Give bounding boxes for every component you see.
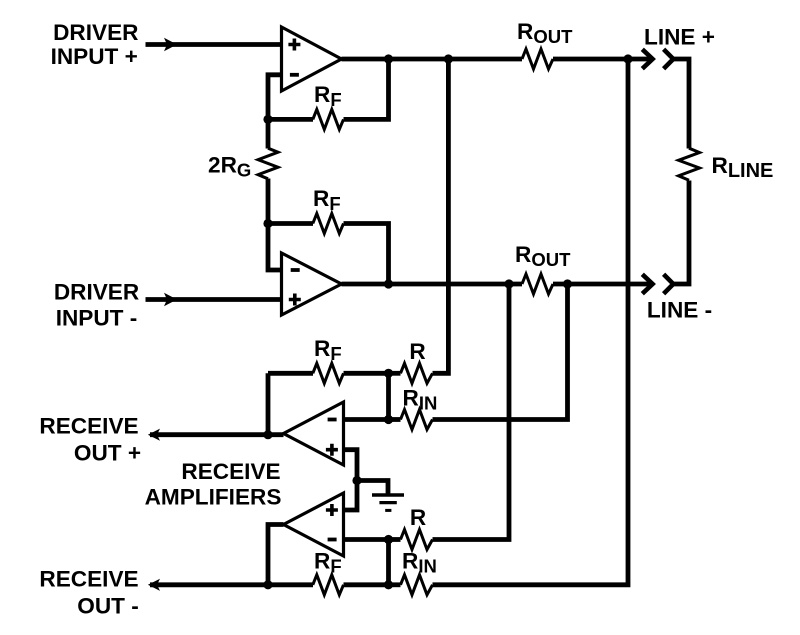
resistor RF1 [313,109,344,129]
resistor RIN1 [401,410,433,430]
wire node C vertical LINE- to RIN1 [433,284,568,420]
wire driver input - [146,297,282,302]
svg-text:RECEIVE: RECEIVE [181,459,280,484]
wire R2 left stub [389,537,401,542]
junction dot U3 output [263,430,272,439]
junction dot LINE- [563,279,572,288]
wire RF4 to node [344,582,389,587]
svg-text:RECEIVE: RECEIVE [39,414,138,439]
op-amp U3 receive + [284,402,344,465]
junction dot LINE+ [623,54,632,63]
svg-text:OUT +: OUT + [74,441,141,466]
svg-text:RLINE: RLINE [712,153,774,182]
arrow driver input - [164,293,177,307]
wire node vertical R2 to RIN2 [386,540,391,585]
wire ROUT1 to LINE+ arrow [553,57,653,62]
svg-text:2RG: 2RG [208,153,251,181]
op-amp U1 driver + [282,27,342,91]
arrow receive out + [148,429,160,441]
wire U2 output row to ROUT2 [342,282,523,287]
svg-text:ROUT: ROUT [517,19,573,47]
arrow receive out - [148,579,160,591]
wire node A vertical from U1 output to R1 [433,59,449,373]
wire RIN1 left stub [389,417,401,422]
svg-text:DRIVER: DRIVER [54,280,139,305]
wire node vertical RF3 to RIN1 [386,373,391,419]
svg-text:RIN: RIN [403,386,438,414]
connector LINE- jack chevron [664,274,674,293]
resistor RIN2 [401,575,433,595]
svg-text:LINE +: LINE + [644,25,715,50]
connector LINE+ plug arrow [642,49,652,68]
wire R1 left to node [389,371,401,376]
wire RF2 feedback row left [268,221,313,226]
wire node B vertical from U2 output to R2 [433,284,510,540]
wire U1 output row to ROUT1 [342,57,523,62]
svg-text:RIN: RIN [402,549,437,577]
wire RF3 row [268,371,313,376]
wire op-amp U2 inverting input stub [268,224,282,271]
junction dot U1 output [384,54,393,63]
wire ground tap [357,481,388,495]
wire 2RG top segment [266,119,271,148]
arrow driver input + [164,38,177,52]
resistor R1 [401,363,433,383]
svg-text:R: R [409,339,425,364]
wire RF1 feedback row right [344,59,389,119]
junction dot ground tap [352,476,361,485]
wire op-amp U1 inverting input stub [268,75,282,120]
svg-text:INPUT -: INPUT - [56,306,138,331]
svg-text:DRIVER: DRIVER [53,20,138,45]
wire node D vertical LINE+ to RIN2 [433,59,629,585]
wire U3 noninverting input to ground rail [344,450,358,510]
junction dot R2 node [384,535,393,544]
junction dot node A top [444,54,453,63]
svg-text:R: R [410,505,426,530]
resistor RF3 [313,363,344,383]
junction dot U2 output [384,279,393,288]
connector LINE+ jack chevron [664,49,674,68]
wire RLINE bottom to LINE- corner [673,181,689,285]
resistor ROUT2 [522,274,553,294]
svg-text:RECEIVE: RECEIVE [39,567,138,592]
junction dot RF3 node [384,369,393,378]
junction dot U4 output [263,580,272,589]
svg-text:RF: RF [314,336,342,364]
junction dot U1 feedback left [263,115,272,124]
wire RIN2 left stub [389,582,401,587]
wire RF3 to node [344,371,389,376]
svg-text:OUT -: OUT - [77,594,139,619]
wire RF1 feedback row left [268,117,313,122]
resistor R2 [401,530,433,550]
resistor RLINE [679,148,700,180]
wire RF4 row left [268,582,313,587]
svg-text:RF: RF [313,186,341,214]
svg-text:LINE -: LINE - [647,298,712,323]
junction dot RIN1 node [384,415,393,424]
resistor RF4 [313,575,344,595]
wire ROUT2 to LINE- arrow [553,282,653,287]
wire RF2 feedback row right [344,224,389,285]
wire receive out - row [150,582,268,587]
svg-text:ROUT: ROUT [515,242,571,270]
wire driver input + [146,42,282,47]
resistor 2RG [258,148,278,179]
ground [372,495,404,510]
svg-text:AMPLIFIERS: AMPLIFIERS [145,485,282,510]
svg-text:INPUT +: INPUT + [51,44,138,69]
connector LINE- plug arrow [642,274,652,293]
wire U3 feedback vertical [266,373,271,434]
wire LINE+ chevron to corner [673,59,689,149]
op-amp U4 receive - [284,493,344,556]
op-amp U2 driver - [282,253,342,315]
wire U4 output down [268,525,284,585]
wire U4 inverting input [344,537,389,542]
junction dot RIN2 node [384,580,393,589]
svg-text:RF: RF [314,82,342,110]
resistor RF2 [313,214,344,234]
wire receive out + row [150,432,284,437]
wire U3 inverting input [344,417,389,422]
wire 2RG bottom segment [266,179,271,224]
junction dot U2 feedback left [263,219,272,228]
resistor ROUT1 [522,49,553,69]
junction dot node B top [504,279,513,288]
